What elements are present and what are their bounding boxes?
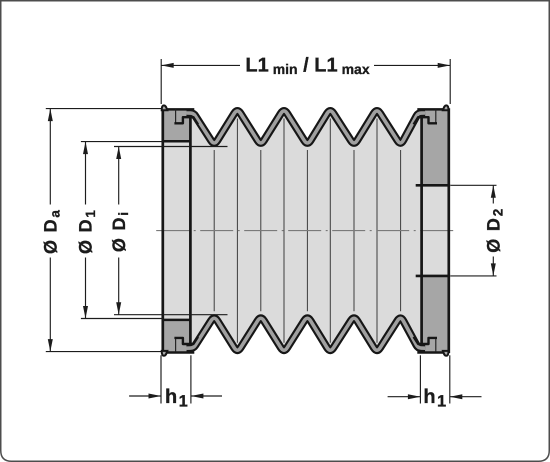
dim D2 arrows <box>491 185 496 198</box>
dim Di line <box>118 147 120 315</box>
centerline <box>156 230 457 232</box>
bellows wall bottom <box>187 318 426 350</box>
dim h1 right arrows <box>408 394 421 399</box>
left flange upper fill <box>163 109 190 141</box>
left upper bead step <box>175 110 177 124</box>
dim D1 extension lines <box>81 142 163 319</box>
dim Di extension lines <box>114 147 228 315</box>
dim h1 left arrows <box>149 394 162 399</box>
dim L1 line <box>161 64 450 66</box>
right upper nub <box>443 105 449 110</box>
dim Da extension lines <box>46 109 161 352</box>
dim D2 extension lines <box>450 185 496 276</box>
left flange lower fill <box>163 320 190 352</box>
svg-text:Ø Di: Ø Di <box>109 211 131 252</box>
left flange outline <box>162 108 195 353</box>
dim L1 extension lines <box>161 59 450 104</box>
dim h1 left line <box>129 395 222 397</box>
interior corrugation lines <box>214 119 400 343</box>
right lower nub <box>443 351 449 356</box>
right upper bead step <box>435 110 437 124</box>
bellows wall top <box>187 111 426 143</box>
left upper nub <box>162 105 168 110</box>
dim h1 left extension lines <box>161 355 191 403</box>
dim h1 right line <box>388 396 482 398</box>
dim Da line <box>49 109 51 352</box>
bellows interior fill <box>163 111 449 350</box>
left lower bead step <box>175 338 177 352</box>
dim D1 line <box>85 142 87 319</box>
right flange outline <box>416 108 450 353</box>
right lower bead step <box>435 338 437 352</box>
dim D1 arrows <box>83 142 88 155</box>
dim Da arrows <box>48 109 53 122</box>
left lower nub <box>162 351 168 356</box>
right flange lower fill <box>422 276 449 352</box>
dim L1 arrows <box>161 63 174 68</box>
dim D2 line <box>492 185 494 276</box>
right flange upper fill <box>422 109 449 185</box>
dim Di arrows <box>116 147 121 160</box>
dim h1 right extension lines <box>420 355 449 403</box>
